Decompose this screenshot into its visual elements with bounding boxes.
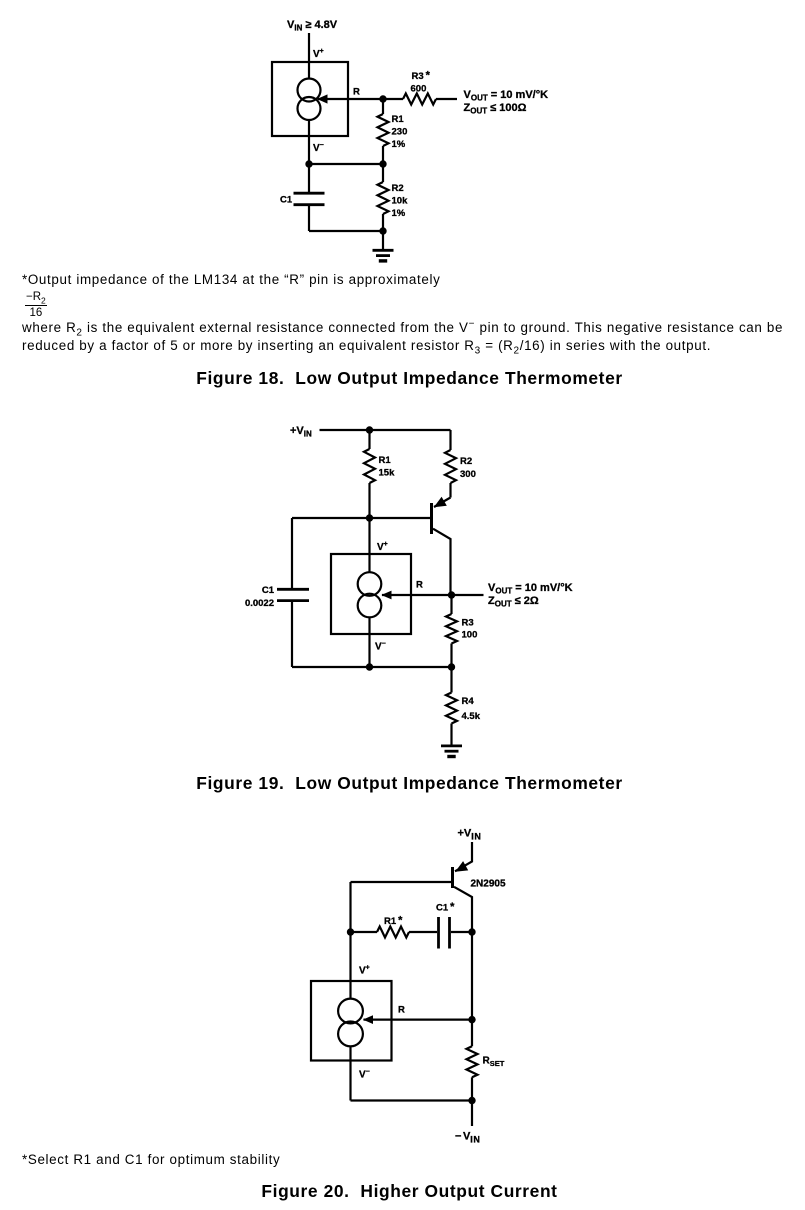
- junction dot bottom rail R4: [448, 663, 455, 670]
- wire base node to LM134 V+: [368, 518, 370, 572]
- svg-text:R2: R2: [392, 183, 404, 194]
- wire base rail: [351, 881, 452, 883]
- capacitor C1 top plate: [294, 192, 325, 195]
- svg-text:1%: 1%: [392, 139, 406, 150]
- svg-text:VOUT = 10 mV/°K: VOUT = 10 mV/°K: [488, 582, 573, 596]
- wire to R1: [351, 931, 378, 933]
- caption Figure 19: [14, 775, 805, 792]
- note select R1 C1: [22, 1151, 280, 1169]
- op-amp U1 LM134 box: [272, 62, 348, 136]
- current source symbol circle bottom: [298, 97, 321, 120]
- wire top rail to R1: [368, 430, 370, 449]
- svg-text:R3: R3: [462, 618, 474, 629]
- capacitor C1 bottom plate: [277, 599, 309, 602]
- svg-text:R3*: R3*: [412, 70, 431, 83]
- svg-text:R: R: [416, 580, 423, 591]
- resistor R4: [446, 693, 457, 724]
- wire R1 to base node: [368, 483, 370, 518]
- svg-text:ZOUT ≤ 2Ω: ZOUT ≤ 2Ω: [488, 595, 539, 609]
- wire VIN to LM134 V+: [308, 33, 310, 79]
- transistor Q1 emitter with arrow: [434, 498, 451, 508]
- junction dot node A right: [379, 160, 386, 167]
- wire LM134 V- to bottom rail: [349, 1046, 351, 1100]
- svg-text:+VIN: +VIN: [290, 425, 312, 439]
- wire R pin with arrow into current source: [364, 1018, 473, 1020]
- transistor Q1 emitter arrow: [455, 861, 468, 872]
- op-amp U1 LM134 box: [331, 554, 411, 634]
- caption Figure 20: [14, 1183, 805, 1200]
- wire bottom rail to R4: [450, 667, 452, 693]
- svg-text:15k: 15k: [379, 468, 396, 479]
- capacitor C1 top plate: [277, 588, 309, 591]
- wire to ground: [382, 231, 384, 249]
- svg-text:4.5k: 4.5k: [462, 711, 481, 722]
- wire R pin with arrow into current source: [382, 594, 484, 596]
- transistor Q1 collector: [433, 529, 451, 595]
- wire left loop down to C1: [291, 518, 293, 588]
- wire R node down to resistor R1: [382, 99, 384, 114]
- svg-text:10k: 10k: [392, 196, 409, 207]
- wire +VIN top rail: [320, 429, 451, 431]
- junction dot R node: [468, 1016, 475, 1023]
- wire R3 to output: [436, 98, 457, 100]
- svg-text:V−: V−: [359, 1069, 370, 1081]
- paragraph where R2: [22, 319, 783, 355]
- svg-text:V−: V−: [313, 142, 324, 154]
- capacitor C1 right plate: [448, 917, 451, 949]
- svg-text:R: R: [353, 87, 360, 98]
- svg-text:V+: V+: [359, 965, 370, 977]
- note output impedance: [22, 271, 440, 289]
- junction dot output node: [448, 591, 455, 598]
- resistor R2: [445, 450, 456, 483]
- wire C1 to bottom rail: [291, 602, 293, 667]
- junction dot C1 right: [468, 928, 475, 935]
- svg-text:−VIN: −VIN: [455, 1131, 480, 1145]
- svg-text:0.0022: 0.0022: [245, 598, 274, 609]
- junction dot bottom rail V-: [366, 663, 373, 670]
- svg-text:R1*: R1*: [384, 915, 403, 928]
- svg-text:RSET: RSET: [483, 1056, 505, 1069]
- wire LM134 V- down to bottom rail: [368, 617, 370, 667]
- svg-text:230: 230: [392, 127, 408, 138]
- wire +VIN to emitter: [455, 842, 472, 871]
- junction dot base rail: [366, 514, 373, 521]
- transistor Q1 base bar: [430, 503, 433, 534]
- caption Figure 18: [14, 370, 805, 387]
- svg-text:ZOUT ≤ 100Ω: ZOUT ≤ 100Ω: [464, 102, 527, 116]
- capacitor C1 bottom plate: [294, 203, 325, 206]
- wire bottom rail: [351, 1099, 473, 1101]
- resistor R3: [403, 94, 436, 105]
- junction dot top rail: [366, 426, 373, 433]
- svg-text:R1: R1: [392, 114, 405, 125]
- wire R4 to ground: [450, 724, 452, 745]
- svg-text:300: 300: [460, 469, 476, 480]
- current source symbol circle top: [338, 999, 363, 1024]
- wire bottom rail: [309, 230, 383, 232]
- wire LM134 V- down to node A: [308, 120, 310, 192]
- wire R3 to bottom rail: [450, 644, 452, 668]
- current source symbol circle top: [358, 572, 382, 596]
- wire R1 to node A: [382, 146, 384, 164]
- resistor RSET: [467, 1046, 478, 1077]
- current source symbol circle bottom: [358, 594, 382, 618]
- fraction -R2/16: [25, 292, 47, 320]
- resistor R2: [382, 164, 384, 182]
- resistor R1: [378, 114, 389, 146]
- resistor R3: [446, 614, 457, 644]
- resistor R1: [364, 449, 375, 483]
- junction dot bottom rail: [468, 1097, 475, 1104]
- svg-text:R: R: [398, 1005, 405, 1016]
- svg-text:C1: C1: [262, 585, 275, 596]
- svg-text:R1: R1: [379, 455, 392, 466]
- current source symbol circle bottom: [338, 1022, 363, 1047]
- ground: [441, 745, 462, 748]
- svg-text:VIN ≥ 4.8V: VIN ≥ 4.8V: [287, 19, 338, 33]
- capacitor C1 left plate: [437, 917, 440, 949]
- resistor R1: [377, 927, 409, 938]
- svg-text:C1*: C1*: [436, 901, 455, 914]
- junction dot node A left: [305, 160, 312, 167]
- wire output node to R3: [450, 595, 452, 614]
- svg-text:C1: C1: [280, 195, 293, 206]
- wire base rail: [292, 517, 430, 519]
- transistor Q1 base bar: [451, 867, 454, 888]
- wire node A horizontal: [309, 163, 383, 165]
- wire left loop down: [349, 882, 351, 998]
- svg-text:V+: V+: [377, 541, 388, 553]
- svg-text:V+: V+: [313, 48, 324, 60]
- svg-text:VOUT = 10 mV/°K: VOUT = 10 mV/°K: [464, 89, 549, 103]
- ground: [373, 249, 394, 252]
- transistor Q1 collector wire down: [454, 887, 472, 1047]
- svg-text:+VIN: +VIN: [458, 828, 482, 842]
- svg-text:600: 600: [411, 84, 427, 95]
- wire bottom rail: [292, 666, 452, 668]
- wire to -VIN: [471, 1101, 473, 1127]
- wire RSET to bottom rail: [471, 1077, 473, 1100]
- svg-text:100: 100: [462, 630, 478, 641]
- svg-text:V−: V−: [375, 641, 386, 653]
- svg-text:R2: R2: [460, 456, 472, 467]
- wire top rail corner to R2: [449, 430, 451, 450]
- wire C1 to bottom rail: [308, 206, 310, 231]
- wire R2 to emitter: [449, 483, 451, 498]
- wire R1 to C1: [409, 931, 437, 933]
- op-amp U1 LM134 box: [311, 981, 392, 1061]
- wire C1 to collector node: [451, 931, 472, 933]
- current source symbol circle top: [298, 79, 321, 102]
- node junction dot at R: [379, 95, 386, 102]
- svg-text:R4: R4: [462, 696, 475, 707]
- svg-text:1%: 1%: [392, 208, 406, 219]
- svg-text:2N2905: 2N2905: [471, 879, 506, 890]
- junction dot bottom rail: [379, 227, 386, 234]
- junction dot R1 left: [347, 928, 354, 935]
- wire R pin with arrow into current source: [318, 98, 403, 100]
